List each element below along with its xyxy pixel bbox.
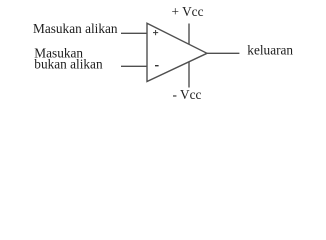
svg-text:bukan alikan: bukan alikan <box>34 57 103 72</box>
wire -Vcc <box>188 62 190 88</box>
wire +Vcc <box>188 24 190 45</box>
svg-text:+ Vcc: + Vcc <box>172 4 204 19</box>
svg-text:- Vcc: - Vcc <box>173 87 202 102</box>
svg-text:keluaran: keluaran <box>247 43 293 58</box>
wire input 1 <box>121 32 147 34</box>
wire input 2 <box>121 65 147 67</box>
wire output <box>207 52 239 54</box>
pin - (inverting marker) <box>155 65 159 67</box>
label Masukan bukan alikan <box>34 45 103 71</box>
svg-text:Masukan alikan: Masukan alikan <box>33 21 118 36</box>
op-amp U1 <box>147 23 207 81</box>
pin + (non-inverting marker) <box>153 30 158 35</box>
